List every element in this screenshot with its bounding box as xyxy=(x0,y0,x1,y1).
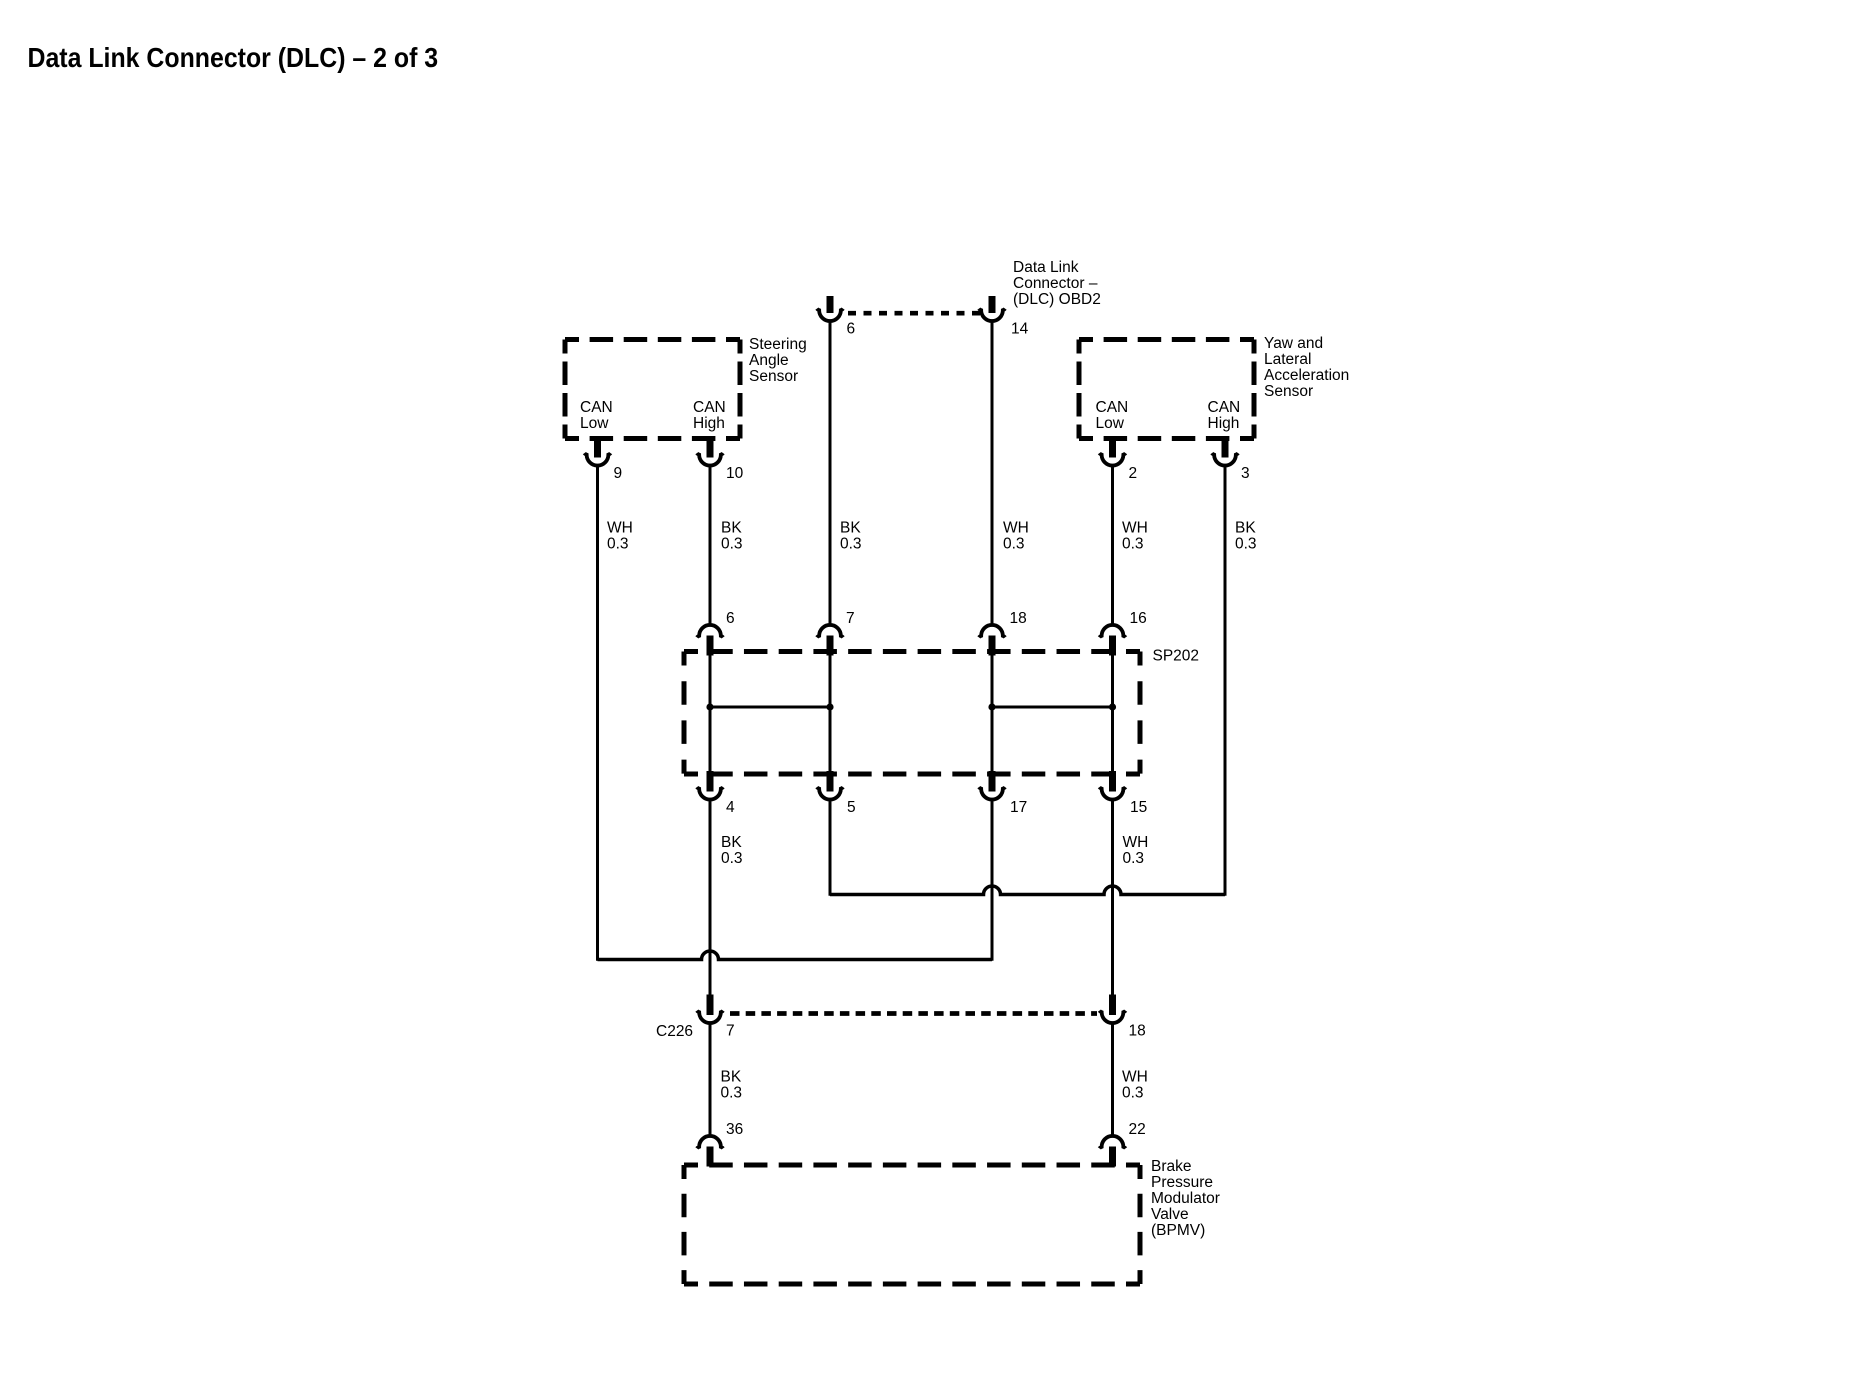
svg-text:Sensor: Sensor xyxy=(749,368,798,385)
BPMV pin 22 terminal xyxy=(1099,1136,1125,1167)
SP202 bottom terminal pin 17 xyxy=(979,771,1005,800)
connector DLC pin 6 terminal xyxy=(817,296,843,321)
box: Steering Angle Sensor xyxy=(565,340,740,439)
svg-text:(BPMV): (BPMV) xyxy=(1151,1222,1205,1239)
svg-text:CAN: CAN xyxy=(580,399,613,416)
svg-text:BK: BK xyxy=(721,520,742,537)
svg-text:WH: WH xyxy=(607,520,633,537)
svg-text:0.3: 0.3 xyxy=(721,1085,743,1102)
svg-text:0.3: 0.3 xyxy=(1235,536,1257,553)
SP202 bottom terminal pin 4 xyxy=(697,771,723,800)
DLC connector body dashed line xyxy=(848,311,980,316)
svg-text:3: 3 xyxy=(1241,465,1250,482)
svg-text:Pressure: Pressure xyxy=(1151,1174,1213,1191)
SP202 top terminal pin 18 xyxy=(979,625,1005,656)
svg-text:7: 7 xyxy=(846,610,855,627)
svg-text:CAN: CAN xyxy=(1208,399,1241,416)
wire: C226 pin 18 down to BPMV 22 (WH 0.3) xyxy=(1111,1023,1114,1136)
svg-text:7: 7 xyxy=(726,1023,735,1040)
wire inside SP202 (pin 16 to pin 15) xyxy=(1111,648,1114,776)
SAS pin 10 terminal xyxy=(697,437,723,466)
svg-text:5: 5 xyxy=(847,799,856,816)
wire: SP202 pin 15 down to C226 pin 18 xyxy=(1111,799,1114,996)
wire: SP202 pin 17 down to corner xyxy=(991,799,994,961)
svg-text:2: 2 xyxy=(1129,465,1138,482)
Yaw pin 2 terminal xyxy=(1099,437,1125,466)
svg-text:0.3: 0.3 xyxy=(1122,536,1144,553)
svg-text:18: 18 xyxy=(1129,1023,1146,1040)
box: Yaw and Lateral Acceleration Sensor xyxy=(1079,340,1254,439)
splice bus bar left xyxy=(710,706,830,709)
svg-text:6: 6 xyxy=(847,321,856,338)
BPMV pin 36 terminal xyxy=(697,1136,723,1167)
svg-text:0.3: 0.3 xyxy=(1122,1085,1144,1102)
wire: SAS pin 10 (BK 0.3) down to SP202 pin 6 xyxy=(709,465,712,625)
svg-text:Low: Low xyxy=(1096,415,1125,432)
svg-text:Connector –: Connector – xyxy=(1013,275,1098,292)
svg-text:Brake: Brake xyxy=(1151,1158,1192,1175)
svg-text:15: 15 xyxy=(1130,799,1147,816)
SAS pin 9 terminal xyxy=(584,437,610,466)
wire: Yaw pin 2 (WH 0.3) down to SP202 pin 16 xyxy=(1111,465,1114,625)
splice junction dot right A xyxy=(988,703,995,710)
svg-text:0.3: 0.3 xyxy=(721,850,743,867)
wire: DLC pin 14 (WH 0.3) down to SP202 pin 18 xyxy=(991,321,994,625)
svg-text:WH: WH xyxy=(1003,520,1029,537)
svg-text:0.3: 0.3 xyxy=(721,536,743,553)
splice junction dot left B xyxy=(826,703,833,710)
svg-text:High: High xyxy=(1208,415,1240,432)
svg-text:22: 22 xyxy=(1129,1121,1146,1138)
svg-text:9: 9 xyxy=(614,465,623,482)
svg-text:(DLC) OBD2: (DLC) OBD2 xyxy=(1013,291,1101,308)
SP202 top terminal pin 7 xyxy=(817,625,843,656)
svg-text:6: 6 xyxy=(726,610,735,627)
SP202 bottom terminal pin 5 xyxy=(817,771,843,800)
C226 connector body dashed line xyxy=(730,1011,1097,1016)
svg-text:0.3: 0.3 xyxy=(607,536,629,553)
svg-text:36: 36 xyxy=(726,1121,743,1138)
svg-text:C226: C226 xyxy=(656,1023,693,1040)
svg-text:10: 10 xyxy=(726,465,744,482)
wire: DLC pin 6 (BK 0.3) down to SP202 pin 7 xyxy=(829,321,832,625)
svg-text:0.3: 0.3 xyxy=(840,536,862,553)
wire inside SP202 (pin 7 to pin 5) xyxy=(829,648,832,776)
svg-text:Valve: Valve xyxy=(1151,1206,1189,1223)
SP202 bottom terminal pin 15 xyxy=(1099,771,1125,800)
svg-text:4: 4 xyxy=(726,799,735,816)
wire: Yaw pin 3 (BK 0.3) down xyxy=(1224,465,1227,896)
svg-text:16: 16 xyxy=(1130,610,1147,627)
svg-text:Yaw and: Yaw and xyxy=(1264,335,1323,352)
wire: C226 pin 7 down to BPMV 36 (BK 0.3) xyxy=(709,1023,712,1136)
svg-text:Modulator: Modulator xyxy=(1151,1190,1220,1207)
svg-text:High: High xyxy=(693,415,725,432)
splice bus bar right xyxy=(992,706,1113,709)
svg-text:WH: WH xyxy=(1122,1069,1148,1086)
wire: SP202 pin 5 down to corner xyxy=(829,799,832,896)
svg-text:WH: WH xyxy=(1122,520,1148,537)
svg-text:CAN: CAN xyxy=(1096,399,1129,416)
svg-text:Steering: Steering xyxy=(749,336,807,353)
svg-text:WH: WH xyxy=(1123,834,1149,851)
svg-text:18: 18 xyxy=(1010,610,1027,627)
svg-text:Low: Low xyxy=(580,415,609,432)
svg-text:BK: BK xyxy=(721,834,742,851)
svg-text:Sensor: Sensor xyxy=(1264,383,1313,400)
C226 pin 18 terminal xyxy=(1099,995,1125,1024)
C226 pin 7 terminal xyxy=(697,995,723,1024)
splice junction dot left A xyxy=(706,703,713,710)
svg-text:0.3: 0.3 xyxy=(1123,850,1145,867)
svg-text:Lateral: Lateral xyxy=(1264,351,1311,368)
svg-text:Acceleration: Acceleration xyxy=(1264,367,1349,384)
svg-text:14: 14 xyxy=(1011,321,1029,338)
svg-text:BK: BK xyxy=(721,1069,742,1086)
Yaw pin 3 terminal xyxy=(1212,437,1238,466)
wire inside SP202 (pin 18 to pin 17) xyxy=(991,648,994,776)
wire: SAS pin 9 (WH 0.3) down xyxy=(596,465,599,961)
svg-text:BK: BK xyxy=(840,520,861,537)
svg-text:BK: BK xyxy=(1235,520,1256,537)
box: SP202 splice pack xyxy=(684,652,1140,775)
svg-text:SP202: SP202 xyxy=(1153,648,1200,665)
wire inside SP202 (pin 6 to pin 4) xyxy=(709,648,712,776)
wire: SP202 pin 4 down to C226 pin 7 xyxy=(709,799,712,996)
horizontal wire SAS-9 to SP202-17 with hop xyxy=(598,951,993,960)
svg-text:Angle: Angle xyxy=(749,352,789,369)
box: Brake Pressure Modulator Valve xyxy=(684,1165,1140,1284)
SP202 top terminal pin 6 xyxy=(697,625,723,656)
svg-text:Data Link: Data Link xyxy=(1013,259,1079,276)
svg-text:Data Link Connector (DLC) – 2: Data Link Connector (DLC) – 2 of 3 xyxy=(28,41,439,73)
svg-text:17: 17 xyxy=(1010,799,1027,816)
splice junction dot right B xyxy=(1109,703,1116,710)
svg-text:CAN: CAN xyxy=(693,399,726,416)
connector DLC pin 14 terminal xyxy=(979,296,1005,321)
horizontal wire SP202-5 to Yaw-3 with hops xyxy=(830,886,1225,894)
svg-text:0.3: 0.3 xyxy=(1003,536,1025,553)
SP202 top terminal pin 16 xyxy=(1099,625,1125,656)
